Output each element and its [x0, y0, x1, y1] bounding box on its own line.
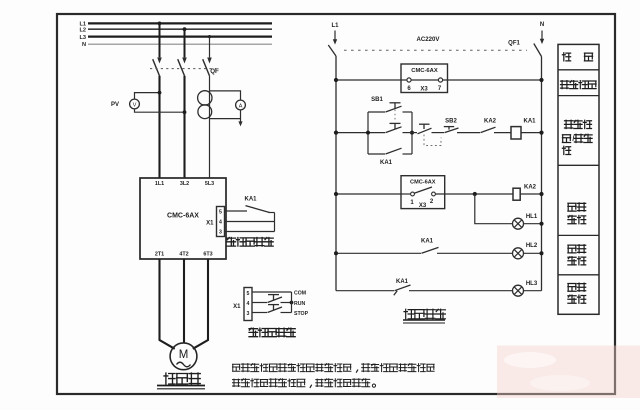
lamp HL3 — [513, 285, 524, 296]
legend table separator — [558, 164, 599, 166]
underline main circuit 1 — [157, 385, 205, 387]
rung1 wire — [336, 79, 542, 81]
wire feeder3 lower — [209, 76, 211, 178]
svg-text:X1: X1 — [233, 304, 241, 310]
node PV-L2 — [183, 110, 187, 114]
wire PV bottom — [135, 109, 185, 112]
svg-text:3L2: 3L2 — [180, 181, 189, 187]
svg-text:5: 5 — [219, 210, 222, 216]
pushbutton SB1 blade — [386, 106, 402, 112]
svg-text:V: V — [133, 102, 137, 108]
wire X1 pin3 out — [225, 231, 275, 233]
svg-text:CMC-6AX: CMC-6AX — [410, 179, 436, 185]
svg-text:KA1: KA1 — [380, 160, 393, 166]
lamp HL1 — [513, 218, 524, 229]
pin circle 6 — [407, 78, 411, 82]
contact KA1 hold blade — [386, 148, 402, 154]
rung4 wire left — [336, 252, 421, 254]
rung3 wire inside — [401, 193, 411, 195]
legend zhi line3 — [562, 146, 570, 154]
svg-text:3: 3 — [247, 311, 250, 317]
legend zhi-shi 3 — [568, 295, 576, 303]
rung5 wire — [409, 290, 513, 292]
watermark (faint pink) — [497, 346, 640, 399]
rung2 wire — [432, 132, 445, 134]
svg-text:SB1: SB1 — [371, 97, 383, 103]
coil KA1 — [511, 127, 521, 139]
bus N — [88, 43, 272, 45]
svg-text:6: 6 — [407, 86, 411, 92]
pin circle 2 — [432, 192, 436, 196]
node branch right — [410, 131, 414, 135]
voltmeter PV circle — [130, 99, 140, 109]
svg-text:1: 1 — [410, 200, 414, 206]
breaker QF pole 1 blade — [153, 59, 160, 76]
relay output box U1-R1 — [401, 64, 448, 93]
svg-text:RUN: RUN — [294, 301, 305, 307]
linkage dashes SB1 — [394, 110, 396, 122]
node rung2 left — [334, 131, 338, 135]
relay output box U1-R3 — [401, 176, 445, 209]
pushbutton STOP blade — [268, 307, 283, 313]
breaker QF pole 3 blade — [203, 59, 210, 76]
contact KA1 blade (single node) — [246, 206, 270, 213]
connector X1 on box — [217, 207, 225, 237]
breaker QF1 right blade — [534, 44, 542, 57]
wire feeder2 upper — [184, 29, 186, 57]
rung2 wire mid — [403, 132, 418, 134]
svg-text:COM: COM — [294, 290, 306, 296]
ground arrow below ammeter — [240, 119, 242, 123]
rung2 wire — [457, 132, 480, 134]
svg-text:2T1: 2T1 — [155, 251, 164, 257]
pushbutton actuator (SB1 NC) — [419, 123, 430, 125]
contact KA1 rung4 blade — [422, 247, 439, 253]
label zhu-hui-lu (main circuit) — [164, 373, 175, 384]
label dan-jie-dian-kong-zhi — [227, 238, 236, 247]
svg-text:4: 4 — [219, 220, 222, 226]
svg-text:STOP: STOP — [294, 311, 309, 317]
wire STOP left — [252, 312, 267, 314]
svg-text:4: 4 — [247, 301, 250, 307]
node rung4 left — [334, 251, 338, 255]
breaker QF pole 2 arrow — [182, 58, 187, 64]
node HL2 rail — [540, 251, 544, 255]
wire CT secondary top — [210, 91, 241, 100]
legend ting-zhi — [568, 284, 576, 292]
label kong-zhi-hui-lu (control circuit) — [404, 309, 414, 319]
svg-text:5L3: 5L3 — [205, 181, 214, 187]
legend table separator — [558, 274, 599, 276]
branch bottom wire — [368, 153, 385, 155]
wire loop right side — [274, 213, 276, 232]
svg-text:L1: L1 — [331, 23, 339, 29]
breaker QF1 left blade — [328, 45, 336, 56]
svg-text:L2: L2 — [79, 27, 86, 33]
linkage dashes L — [424, 135, 441, 146]
node rung1 left — [334, 78, 338, 82]
svg-text:KA1: KA1 — [523, 119, 536, 125]
pushbutton RUN actuator — [268, 294, 279, 296]
parallel branch right vertical — [411, 112, 413, 154]
label shuang-jie-dian-kong-zhi — [249, 328, 258, 337]
pin circle 7 — [438, 78, 442, 82]
motor tilde — [177, 362, 191, 367]
underline control circuit 1 — [403, 319, 445, 321]
motor M circle — [170, 343, 197, 370]
legend zhi-shi 1 — [568, 216, 576, 224]
contact blade rung3 — [414, 187, 432, 193]
rung3 wire left — [336, 193, 401, 195]
branch top wire — [368, 111, 385, 113]
svg-text:KA1: KA1 — [396, 279, 409, 285]
breaker QF pole 2 blade — [178, 59, 185, 76]
legend ruan-qi-dong line1 — [565, 120, 573, 128]
legend wei-duan — [562, 53, 570, 61]
svg-text:X3: X3 — [420, 87, 428, 93]
svg-text:X3: X3 — [419, 203, 427, 209]
svg-text:6T3: 6T3 — [203, 251, 212, 257]
pushbutton STOP actuator — [268, 304, 279, 306]
svg-text:CMC-6AX: CMC-6AX — [411, 68, 438, 74]
svg-text:QF1: QF1 — [508, 40, 520, 46]
wire motor lead3 — [193, 259, 208, 349]
underline main circuit 2 — [157, 388, 205, 390]
wire X1 pin5 out — [225, 210, 248, 212]
svg-text:PV: PV — [111, 102, 119, 108]
svg-text:KA2: KA2 — [524, 184, 537, 190]
svg-text:SB2: SB2 — [445, 119, 457, 125]
svg-text:CMC-6AX: CMC-6AX — [167, 212, 199, 219]
legend qi/ting-kong line2 — [562, 135, 570, 143]
node branch left — [366, 131, 370, 135]
bus L2 — [88, 28, 272, 30]
node L1 tap — [158, 22, 162, 26]
wire STOP right — [281, 312, 292, 314]
svg-text:2: 2 — [430, 199, 434, 205]
node L2 tap — [183, 27, 187, 31]
node rung3 branch — [473, 192, 477, 196]
svg-text:HL1: HL1 — [526, 214, 538, 220]
connector X1 aux — [244, 288, 252, 321]
node rung2 right — [539, 131, 543, 135]
wire X1 pin4 out — [225, 221, 275, 223]
node RUN — [290, 301, 294, 305]
node PV-L1 — [158, 91, 162, 95]
parallel branch left vertical — [367, 112, 369, 154]
legend yun-xing — [568, 245, 576, 253]
ammeter PA circle — [236, 100, 246, 110]
svg-text:KA1: KA1 — [244, 196, 257, 202]
breaker QF pole 1 arrow — [157, 58, 162, 64]
wire motor lead1 — [160, 259, 175, 349]
arrow N — [541, 31, 543, 41]
svg-text:X1: X1 — [206, 221, 214, 227]
left rail — [335, 56, 337, 291]
svg-text:QF: QF — [210, 68, 219, 75]
node rung1 right — [539, 78, 543, 82]
svg-text:HL2: HL2 — [526, 243, 538, 249]
rung2 wire right — [521, 132, 542, 134]
right rail — [541, 57, 543, 291]
soft starter box U1 — [140, 178, 226, 259]
wire feeder2 lower — [183, 76, 185, 178]
bus L3 — [88, 35, 272, 37]
current transformer TA bobbin2 — [198, 105, 212, 119]
wire CT secondary bottom — [210, 110, 241, 119]
svg-text:HL3: HL3 — [526, 281, 538, 287]
arrow L1 — [334, 31, 336, 41]
coil KA2 — [513, 188, 520, 200]
wire HL1 to rail — [524, 223, 542, 225]
pushbutton SB1 actuator — [390, 102, 401, 104]
svg-text:1L1: 1L1 — [155, 181, 164, 187]
branch wire to HL1 — [475, 194, 513, 224]
rung4 wire — [437, 252, 513, 254]
svg-text:N: N — [82, 42, 86, 48]
wire RUN right — [281, 302, 292, 304]
lamp HL2 — [513, 248, 524, 259]
svg-text:AC220V: AC220V — [416, 36, 440, 43]
legend table separator — [558, 69, 599, 71]
node rung3 right — [539, 192, 543, 196]
svg-text:N: N — [540, 22, 544, 28]
legend kong-zhi-dian-yuan — [561, 81, 569, 89]
wire aux right rail — [291, 292, 293, 313]
legend table frame — [558, 44, 599, 314]
svg-text:7: 7 — [438, 86, 442, 92]
svg-text:5: 5 — [247, 291, 250, 297]
svg-text:3: 3 — [219, 229, 222, 235]
svg-text:KA2: KA2 — [484, 119, 497, 125]
breaker QF pole 3 arrow — [207, 58, 212, 64]
svg-text:L3: L3 — [79, 35, 86, 41]
node HL1 rail — [539, 222, 543, 226]
wire feeder1 lower — [158, 76, 160, 178]
pushbutton RUN blade — [268, 297, 283, 303]
pushbutton blade (SB1 NC) — [418, 128, 432, 134]
wire COM — [252, 291, 292, 293]
legend table separator — [558, 234, 599, 236]
pushbutton SB2 blade — [445, 128, 459, 133]
legend zhi-shi 2 — [568, 257, 576, 265]
legend table separator — [558, 95, 599, 97]
wire contact to right — [269, 212, 275, 214]
pushbutton SB2 actuator — [444, 126, 454, 128]
wire motor lead2 — [183, 259, 185, 343]
pin circle 1 — [411, 192, 415, 196]
wire HL3 to rail — [524, 290, 542, 292]
note line 2 — [233, 379, 240, 386]
rung2 contact blade (SB1 pair) — [386, 127, 402, 133]
node rung3 left — [334, 192, 338, 196]
QF1 linkage dashed — [344, 49, 527, 51]
underline control circuit 2 — [403, 322, 445, 324]
wire HL2 to rail — [524, 252, 542, 254]
bus L1 — [88, 22, 272, 24]
contact KA2 blade — [481, 127, 496, 132]
rung2 contact actuator — [390, 122, 401, 124]
wire feeder3 upper — [209, 37, 211, 58]
wire PV top — [135, 93, 160, 100]
rung3 wire right — [521, 193, 542, 195]
contact KA1 NC blade — [395, 285, 411, 291]
rung2 wire left — [336, 132, 385, 134]
svg-text:KA1: KA1 — [421, 238, 434, 244]
note line 1 — [233, 364, 240, 371]
legend gu-zhang — [568, 203, 576, 211]
svg-text:4T2: 4T2 — [179, 251, 188, 257]
wire RUN left — [252, 302, 267, 304]
current transformer TA bobbin1 — [198, 91, 212, 105]
node L3 tap — [208, 35, 211, 38]
breaker QF linkage (dashed) — [150, 68, 216, 70]
rung3 wire — [435, 193, 512, 195]
rung2 wire — [494, 132, 511, 134]
wire feeder1 upper — [159, 23, 161, 57]
contact KA1 NC tick — [394, 291, 397, 296]
rung5 wire left — [336, 290, 394, 292]
svg-text:M: M — [179, 349, 189, 361]
svg-text:A: A — [239, 103, 243, 109]
